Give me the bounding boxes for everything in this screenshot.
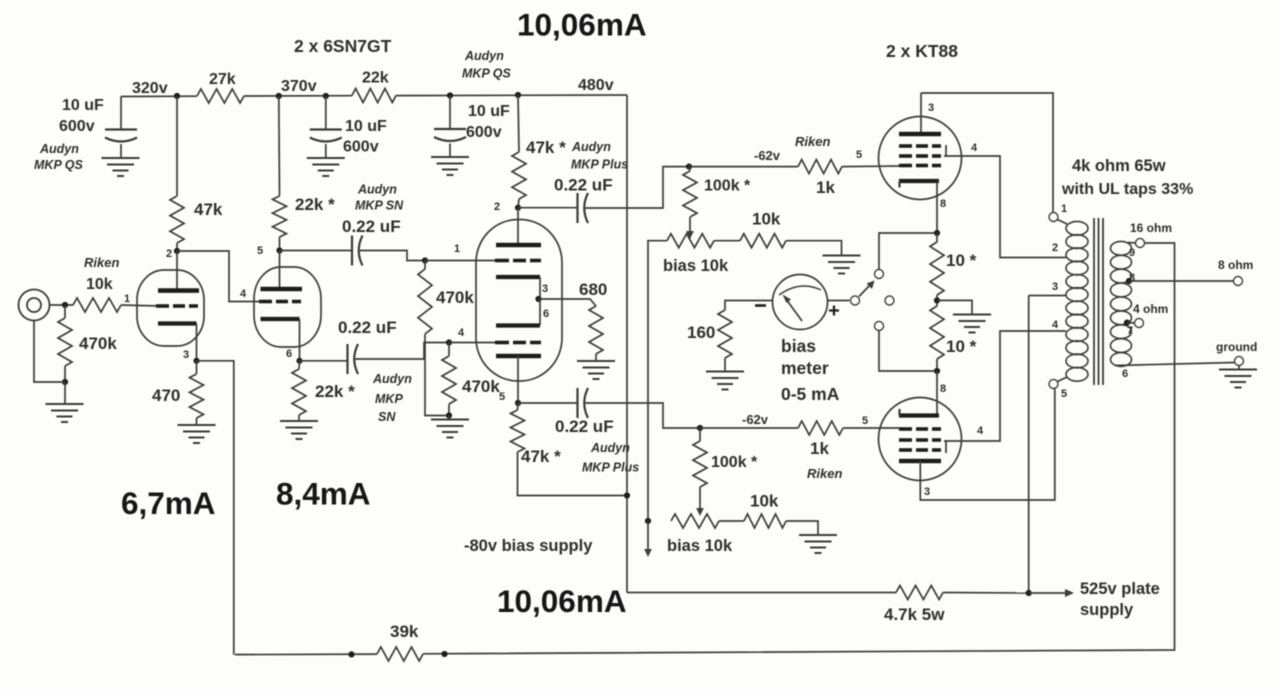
ground under 680 bbox=[577, 361, 615, 379]
potentiometer bias 10k upper bbox=[667, 234, 714, 248]
plate KT88b pin3 bbox=[899, 459, 941, 464]
svg-text:1k: 1k bbox=[810, 439, 829, 458]
ground under 22k* bbox=[280, 421, 318, 439]
primary winding bbox=[1066, 221, 1088, 235]
ground after 10k upper bbox=[823, 256, 861, 274]
resistor 470k grid V3b bbox=[448, 343, 450, 357]
svg-text:Audyn: Audyn bbox=[357, 183, 397, 197]
svg-text:4: 4 bbox=[971, 142, 978, 154]
resistor 10k upper bbox=[714, 240, 740, 242]
capacitor C3 10uF 600v Audyn MKP QS bbox=[449, 96, 451, 130]
svg-text:600v: 600v bbox=[343, 139, 379, 156]
svg-text:10 uF: 10 uF bbox=[468, 103, 510, 120]
svg-text:3: 3 bbox=[1052, 281, 1058, 293]
resistor 100k* grid return lower bbox=[699, 428, 701, 441]
svg-text:-62v: -62v bbox=[742, 412, 769, 427]
junction 480v/47k* bbox=[624, 492, 630, 498]
junction cathodes V3 bbox=[535, 296, 541, 302]
resistor 100k* grid return upper bbox=[689, 167, 690, 171]
screen tap KT88b pin4 bbox=[945, 441, 947, 453]
svg-text:22k: 22k bbox=[362, 70, 389, 87]
junction plate V3a pin2 bbox=[515, 205, 521, 211]
junction plate V2 pin5 bbox=[276, 247, 282, 253]
grids KT88a bbox=[899, 144, 941, 148]
junction 10* midpoint bbox=[934, 297, 940, 303]
cathode KT88a bbox=[899, 179, 939, 183]
switch wiper arm bbox=[859, 285, 870, 297]
svg-text:470k: 470k bbox=[462, 377, 500, 396]
tube KT88 upper bbox=[879, 117, 962, 200]
bias meter 0-5 mA bbox=[773, 275, 828, 330]
svg-text:-80v bias supply: -80v bias supply bbox=[464, 537, 593, 555]
svg-text:27k: 27k bbox=[209, 71, 236, 88]
cathode KT88b bbox=[936, 371, 938, 416]
resistor 10k lower bbox=[719, 520, 744, 522]
svg-text:10 uF: 10 uF bbox=[62, 97, 104, 114]
svg-text:0.22 uF: 0.22 uF bbox=[342, 217, 401, 236]
svg-text:2: 2 bbox=[1052, 242, 1058, 254]
plate KT88a pin3 bbox=[920, 93, 922, 134]
junction cathode KT88a bbox=[934, 230, 940, 236]
ground secondary bbox=[1219, 370, 1257, 388]
svg-text:47k *: 47k * bbox=[526, 138, 566, 157]
resistor 39k feedback bbox=[377, 647, 423, 661]
svg-text:meter: meter bbox=[781, 358, 829, 378]
junction cathode V2 bbox=[296, 358, 302, 364]
svg-text:Riken: Riken bbox=[807, 466, 842, 481]
svg-text:47k *: 47k * bbox=[521, 447, 561, 466]
svg-text:Audyn: Audyn bbox=[590, 441, 630, 455]
svg-text:MKP QS: MKP QS bbox=[34, 158, 84, 172]
resistor 22k* plate load V2 bbox=[278, 96, 281, 196]
svg-text:100k *: 100k * bbox=[711, 454, 758, 471]
junction plate V3b pin5 bbox=[515, 400, 521, 406]
svg-text:4: 4 bbox=[240, 288, 247, 300]
svg-text:6: 6 bbox=[1122, 368, 1128, 380]
svg-text:MKP Plus: MKP Plus bbox=[571, 158, 628, 172]
capacitor 0.22uF Audyn MKP Plus lower bbox=[518, 402, 578, 404]
wire plate KT88a to primary top bbox=[921, 93, 1053, 213]
wire plate V1 to grid V2 bbox=[177, 251, 260, 302]
junction feedback right bbox=[441, 651, 447, 657]
svg-text:5: 5 bbox=[257, 245, 263, 257]
svg-text:680: 680 bbox=[579, 280, 607, 299]
svg-text:2: 2 bbox=[494, 201, 500, 213]
svg-text:2 x 6SN7GT: 2 x 6SN7GT bbox=[294, 36, 392, 56]
svg-text:7: 7 bbox=[1127, 325, 1133, 337]
wire meter to switch common bbox=[828, 300, 850, 302]
ground under 470 bbox=[178, 425, 216, 443]
junction grid V3a pin1 bbox=[422, 257, 428, 263]
capacitor C2 10uF 600v bbox=[325, 96, 327, 130]
potentiometer bias 10k lower bbox=[671, 514, 719, 528]
junction rail/C2 bbox=[323, 93, 329, 99]
wire 16ohm feedback takeoff bbox=[423, 243, 1175, 654]
svg-text:3: 3 bbox=[183, 349, 189, 361]
svg-text:600v: 600v bbox=[466, 124, 502, 141]
secondary winding bbox=[1111, 241, 1132, 255]
svg-text:5: 5 bbox=[1061, 388, 1067, 400]
svg-text:with UL taps 33%: with UL taps 33% bbox=[1061, 181, 1193, 198]
ground under C3 bbox=[431, 157, 469, 175]
ground mid KT88 bbox=[953, 315, 991, 333]
junction rail/47k bbox=[174, 93, 180, 99]
plate V1 bbox=[176, 251, 178, 291]
svg-text:6,7mA: 6,7mA bbox=[121, 485, 216, 521]
grid V2 pin4 bbox=[259, 300, 301, 304]
svg-text:Audyn: Audyn bbox=[39, 142, 79, 156]
svg-text:Audyn: Audyn bbox=[372, 372, 412, 386]
screen tap KT88a pin4 bbox=[945, 145, 947, 157]
svg-text:6: 6 bbox=[543, 308, 549, 320]
svg-text:MKP SN: MKP SN bbox=[355, 199, 404, 213]
ground under 160 bbox=[706, 372, 744, 390]
svg-text:10k: 10k bbox=[752, 210, 781, 229]
switch contact lower bbox=[875, 322, 884, 331]
svg-text:370v: 370v bbox=[281, 78, 317, 95]
switch contact middle bbox=[885, 296, 894, 305]
wiper arrow upper bbox=[686, 231, 694, 239]
junction 470k common bbox=[446, 412, 452, 418]
svg-text:MKP: MKP bbox=[375, 392, 403, 406]
svg-text:5: 5 bbox=[499, 391, 505, 403]
svg-text:0-5 mA: 0-5 mA bbox=[781, 384, 840, 404]
junction grid V3b pin4 bbox=[446, 339, 452, 345]
wire contact upper to cathode KT88a bbox=[879, 233, 937, 270]
svg-text:MKP Plus: MKP Plus bbox=[582, 461, 639, 475]
svg-text:2: 2 bbox=[166, 248, 172, 260]
cathode V1 bbox=[158, 321, 197, 325]
wiper arrow lower bbox=[696, 508, 704, 516]
svg-text:1: 1 bbox=[454, 243, 460, 255]
resistor 47k plate load V1 bbox=[176, 96, 178, 196]
junction cathode KT88b bbox=[934, 368, 940, 374]
resistor 470k grid V3a bbox=[424, 261, 426, 270]
arrow 525v plate supply bbox=[1029, 592, 1066, 594]
ground input bbox=[46, 404, 84, 422]
svg-text:bias 10k: bias 10k bbox=[663, 257, 729, 275]
resistor 160 meter shunt bbox=[725, 301, 772, 311]
terminal 8 ohm bbox=[1234, 277, 1243, 286]
junction plate V1 pin2 bbox=[174, 248, 180, 254]
resistor 470k input bbox=[64, 305, 66, 318]
svg-text:4 ohm: 4 ohm bbox=[1133, 302, 1168, 316]
svg-text:bias: bias bbox=[781, 336, 816, 356]
svg-text:3: 3 bbox=[924, 486, 930, 498]
junction rail/C3 bbox=[447, 92, 453, 98]
capacitor 0.22uF Audyn MKP SN upper bbox=[280, 250, 353, 252]
svg-text:10 *: 10 * bbox=[946, 337, 977, 356]
ground under C1 bbox=[102, 158, 140, 176]
svg-text:320v: 320v bbox=[132, 80, 168, 97]
primary terminal 1 bbox=[1049, 213, 1058, 222]
svg-text:10 *: 10 * bbox=[946, 251, 977, 270]
grids KT88b bbox=[899, 427, 941, 431]
svg-text:1k: 1k bbox=[816, 178, 835, 197]
resistor 10* upper bbox=[936, 233, 938, 242]
resistor 1k Riken grid stopper lower bbox=[700, 427, 798, 429]
svg-text:100k *: 100k * bbox=[704, 178, 751, 195]
resistor 47k* plate load V3a Audyn bbox=[518, 95, 519, 152]
svg-text:9: 9 bbox=[1129, 247, 1135, 259]
wire 525v center tap feed bbox=[1028, 296, 1030, 594]
resistor 1k Riken grid stopper upper bbox=[689, 166, 798, 168]
svg-text:600v: 600v bbox=[59, 118, 95, 135]
resistor 10k Riken bbox=[73, 298, 121, 312]
svg-text:39k: 39k bbox=[390, 622, 419, 641]
svg-text:470: 470 bbox=[152, 386, 180, 405]
primary terminal 5 bbox=[1049, 380, 1058, 389]
junction 370v node bbox=[276, 93, 282, 99]
svg-text:ground: ground bbox=[1216, 340, 1257, 354]
junction 470k/jack ground bbox=[62, 379, 68, 385]
core bbox=[1094, 218, 1103, 385]
svg-text:MKP QS: MKP QS bbox=[462, 67, 512, 81]
resistor 680 cathode V3 bbox=[539, 299, 597, 306]
svg-text:1: 1 bbox=[1061, 203, 1067, 215]
switch contact upper bbox=[875, 270, 884, 279]
resistor 47k* plate load V3b Audyn MKP Plus bbox=[517, 403, 520, 410]
svg-text:16 ohm: 16 ohm bbox=[1130, 221, 1172, 235]
svg-text:10k: 10k bbox=[86, 276, 113, 293]
wire feedback to cathode V1 bbox=[197, 361, 234, 655]
svg-text:2 x KT88: 2 x KT88 bbox=[886, 41, 958, 61]
svg-text:160: 160 bbox=[687, 323, 715, 342]
ground after 10k lower bbox=[799, 535, 837, 553]
cathode V3a bbox=[496, 275, 540, 279]
wire to mid ground bbox=[937, 300, 972, 314]
junction input node bbox=[62, 302, 68, 308]
tube KT88 lower bbox=[879, 398, 962, 481]
cathode V3b bbox=[496, 323, 540, 327]
selector switch common bbox=[851, 296, 860, 305]
resistor 27k bbox=[197, 89, 244, 103]
svg-text:4: 4 bbox=[458, 327, 465, 339]
wire -80v supply riser bbox=[648, 241, 667, 521]
junction cathode V1 bbox=[193, 358, 199, 364]
capacitor 0.22uF Audyn MKP SN lower bbox=[300, 360, 348, 362]
plate V3a bbox=[517, 208, 519, 245]
plate V2 bbox=[279, 251, 281, 290]
svg-text:4: 4 bbox=[1052, 319, 1059, 331]
svg-text:10,06mA: 10,06mA bbox=[497, 583, 627, 619]
svg-text:525v plate: 525v plate bbox=[1080, 580, 1160, 598]
junction pot2 left bbox=[645, 518, 651, 524]
capacitor C1 10uF 600v bbox=[120, 97, 122, 130]
resistor 22k* cathode V2 bbox=[298, 361, 301, 369]
svg-text:0.22 uF: 0.22 uF bbox=[555, 417, 614, 436]
B+ rail 320v/370v/480v bbox=[121, 95, 197, 97]
svg-text:8: 8 bbox=[940, 198, 946, 210]
resistor 4.7k 5w bbox=[896, 586, 943, 600]
svg-text:Riken: Riken bbox=[84, 255, 119, 270]
svg-text:10 uF: 10 uF bbox=[345, 118, 387, 135]
svg-text:8: 8 bbox=[940, 383, 946, 395]
wire 480v feed down bbox=[626, 95, 628, 593]
svg-text:3: 3 bbox=[928, 102, 934, 114]
svg-text:470k: 470k bbox=[79, 334, 117, 353]
svg-text:Riken: Riken bbox=[795, 134, 830, 149]
svg-text:Audyn: Audyn bbox=[571, 140, 611, 154]
grid V3b bbox=[449, 342, 495, 344]
svg-text:Audyn: Audyn bbox=[464, 49, 504, 63]
svg-text:8,4mA: 8,4mA bbox=[276, 476, 371, 512]
svg-text:6: 6 bbox=[286, 348, 292, 360]
svg-text:0.22 uF: 0.22 uF bbox=[554, 176, 613, 195]
capacitor 0.22uF Audyn MKP Plus upper bbox=[518, 207, 578, 209]
ground under C2 bbox=[307, 158, 345, 176]
junction feedback left bbox=[348, 651, 354, 657]
tube V2 6SN7 triode b (cathodyne) bbox=[254, 267, 321, 347]
input RCA jack bbox=[19, 290, 50, 321]
ground under 470k pair bbox=[448, 416, 450, 420]
tube V1 6SN7 triode a bbox=[137, 270, 204, 346]
grid V3a bbox=[425, 260, 495, 262]
plate V3b bbox=[496, 354, 541, 359]
resistor 470 cathode V1 bbox=[196, 361, 198, 374]
svg-text:22k *: 22k * bbox=[295, 195, 335, 214]
svg-text:-62v: -62v bbox=[754, 148, 781, 163]
svg-text:10,06mA: 10,06mA bbox=[517, 7, 647, 43]
wire jack to grid node bbox=[50, 304, 74, 306]
supply line bbox=[627, 592, 896, 594]
cathode V2 bbox=[261, 317, 300, 321]
svg-text:8 ohm: 8 ohm bbox=[1218, 258, 1253, 272]
resistor 22k bbox=[352, 89, 396, 103]
resistor 10* lower bbox=[930, 306, 944, 359]
wire jack sleeve to ground bbox=[34, 321, 65, 383]
svg-text:22k *: 22k * bbox=[315, 382, 355, 401]
svg-text:SN: SN bbox=[378, 410, 396, 424]
svg-text:4.7k 5w: 4.7k 5w bbox=[884, 605, 945, 624]
junction supply/center tap bbox=[1026, 590, 1032, 596]
wire contact lower to cathode KT88b bbox=[879, 330, 937, 371]
svg-text:bias 10k: bias 10k bbox=[667, 537, 733, 555]
svg-text:47k: 47k bbox=[194, 200, 223, 219]
svg-text:5: 5 bbox=[862, 415, 868, 427]
svg-text:3: 3 bbox=[542, 283, 548, 295]
wire 10k to grid pin1 bbox=[121, 305, 160, 306]
svg-text:5: 5 bbox=[856, 149, 862, 161]
svg-text:4: 4 bbox=[977, 425, 984, 437]
junction rail/47k* bbox=[515, 92, 521, 98]
tube V3 6SN7 double triode bbox=[476, 220, 562, 382]
svg-text:480v: 480v bbox=[578, 77, 614, 94]
svg-text:470k: 470k bbox=[436, 288, 474, 307]
svg-text:supply: supply bbox=[1080, 601, 1134, 619]
svg-text:4k ohm 65w: 4k ohm 65w bbox=[1072, 157, 1166, 175]
arrow to -80v bias supply bbox=[644, 549, 652, 557]
svg-text:0.22 uF: 0.22 uF bbox=[338, 318, 397, 337]
grid V1 bbox=[156, 304, 198, 308]
svg-text:1: 1 bbox=[124, 293, 130, 305]
svg-text:10k: 10k bbox=[750, 492, 779, 511]
